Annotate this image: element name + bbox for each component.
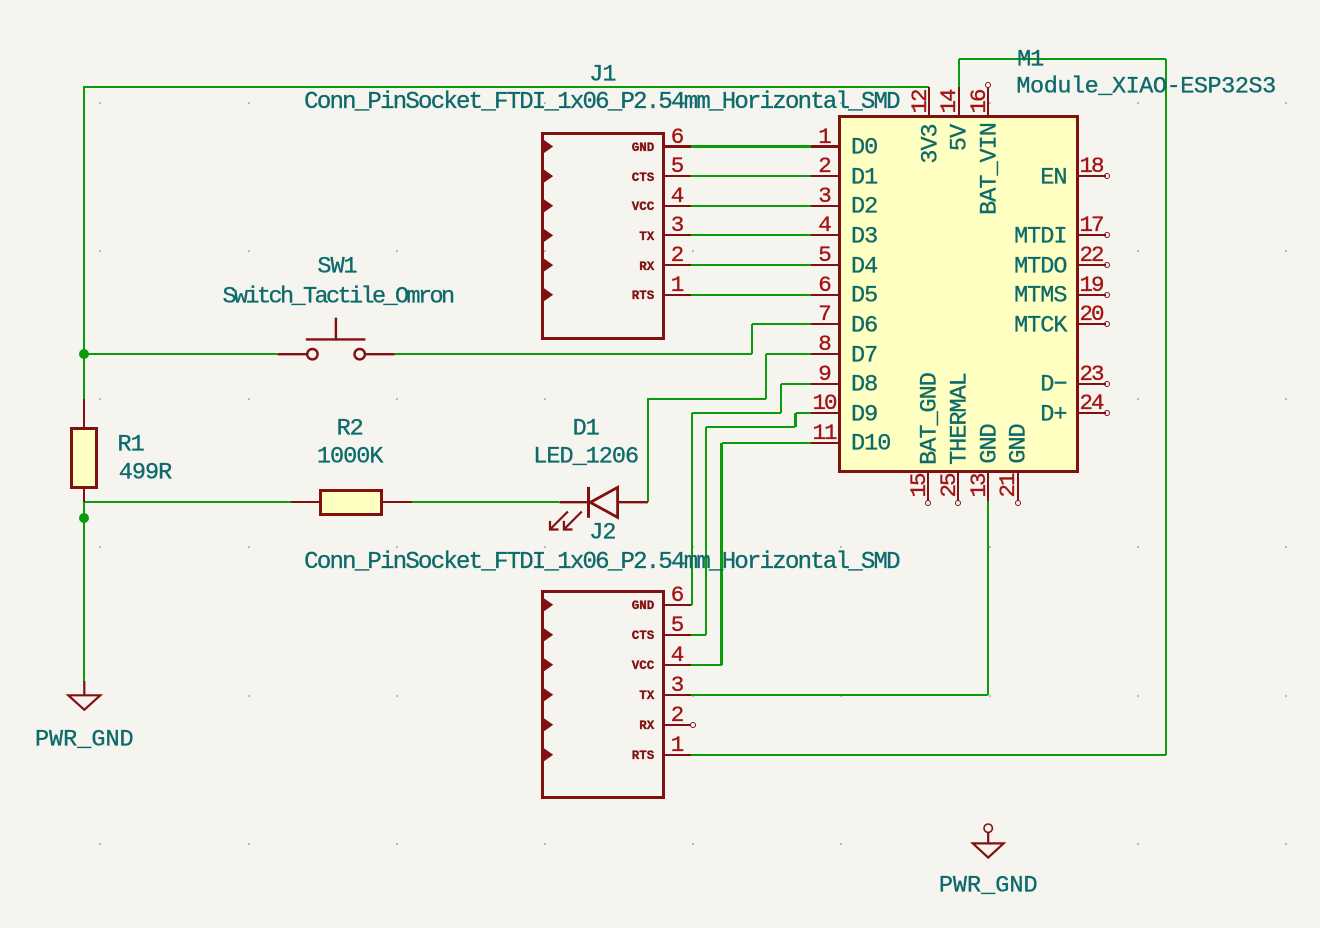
M1 pin number 1	[818, 125, 830, 148]
wire into pin 8 D7	[766, 353, 812, 355]
M1 pin name MTCK	[1014, 314, 1066, 338]
M1 pin name MTDO	[1014, 255, 1066, 279]
M1 pin 14 stub	[958, 87, 960, 117]
wire D9 down to J2 CTS	[705, 427, 707, 635]
M1 pin 10 stub	[811, 412, 839, 414]
M1 pin name D2	[851, 196, 877, 220]
M1 pin 19 unconnected circle	[1104, 292, 1110, 298]
M1 pin name GND	[1008, 424, 1032, 463]
M1 pin 25 stub	[957, 471, 959, 501]
M1 pin number 10	[812, 392, 835, 415]
M1 pin number 16	[967, 90, 990, 113]
connector J2 body	[541, 590, 665, 799]
J2 pin number 2	[671, 704, 683, 727]
M1 pin 11 stub	[811, 442, 839, 444]
J2 pin 1 stub	[663, 754, 691, 756]
J2 pin name VCC	[632, 660, 655, 673]
M1 pin 13 stub	[987, 471, 989, 501]
wire D7 net vertical jog	[765, 354, 767, 399]
wire R1 node to R2	[84, 501, 291, 503]
wire into pin 14 5V	[958, 59, 960, 87]
M1 pin 22 stub	[1077, 264, 1106, 266]
R1 top pin	[83, 399, 85, 429]
J2 pin name CTS	[632, 630, 655, 643]
wire J2 RTS horizontal	[691, 754, 1166, 756]
wire J1 pin 3 to M1 pin 4	[691, 234, 812, 236]
J1 pin 1 stub	[663, 294, 691, 296]
J2 pin 4 stub	[663, 664, 691, 666]
J1 pin name CTS	[632, 171, 655, 184]
resistor R1 body	[70, 427, 98, 489]
M1 pin name BAT_GND	[918, 373, 942, 465]
M1 pin 17 unconnected circle	[1104, 232, 1110, 238]
value 499R	[119, 461, 171, 485]
reference SW1	[317, 255, 356, 279]
M1 pin number 11	[812, 422, 835, 445]
M1 pin name D0	[851, 136, 877, 160]
M1 pin number 13	[967, 475, 990, 498]
M1 pin number 5	[818, 244, 830, 267]
value Switch_Tactile_Omron	[222, 286, 452, 310]
M1 pin 17 stub	[1077, 234, 1106, 236]
J2 pin number 6	[671, 584, 683, 607]
M1 pin 23 unconnected circle	[1104, 381, 1110, 387]
M1 pin number 19	[1079, 273, 1102, 296]
M1 pin name D1	[851, 166, 877, 190]
M1 pin name MTMS	[1014, 284, 1066, 308]
M1 pin 18 unconnected circle	[1104, 173, 1110, 179]
value J1 Conn_PinSocket_FTDI_1x06_P2.54mm_Horizontal_SMD	[304, 91, 899, 115]
wire SW1-D6 vertical jog	[751, 324, 753, 354]
M1 pin name MTDI	[1014, 225, 1066, 249]
M1 pin name BAT_VIN	[978, 123, 1002, 215]
M1 pin number 18	[1079, 155, 1102, 178]
wire D8 middle horizontal	[692, 412, 781, 414]
J2 pin name RTS	[632, 750, 655, 763]
J1 pin name RTS	[632, 290, 655, 303]
power label PWR_GND right	[939, 874, 1038, 898]
M1 pin name EN	[1040, 166, 1066, 190]
M1 pin name 5V	[948, 125, 972, 151]
M1 pin 12 stub	[928, 87, 930, 117]
M1 pin 8 stub	[811, 353, 839, 355]
M1 pin number 2	[818, 155, 830, 178]
reference D1	[573, 417, 599, 441]
M1 pin number 14	[938, 90, 961, 113]
M1 pin 4 stub	[811, 234, 839, 236]
wire J1 pin 4 to M1 pin 3	[691, 205, 812, 207]
M1 pin 5 stub	[811, 264, 839, 266]
wire stub J2 CTS junction	[691, 634, 707, 636]
wire M1 pin 13 vertical	[987, 501, 989, 695]
J2 pin 2 stub	[663, 724, 691, 726]
J2 pin 3 stub	[663, 694, 691, 696]
M1 pin name D+	[1040, 403, 1066, 427]
M1 pin number 20	[1079, 303, 1102, 326]
M1 pin name D5	[851, 284, 877, 308]
M1 pin number 23	[1079, 362, 1102, 385]
J1 pin number 6	[671, 125, 683, 148]
M1 pin 21 stub	[1017, 471, 1019, 501]
reference J1	[589, 63, 615, 87]
M1 pin number 22	[1079, 244, 1102, 267]
resistor R2 body	[319, 489, 383, 516]
M1 pin 16 unconnected circle	[985, 82, 991, 88]
wire D8 vertical jog	[780, 384, 782, 413]
wire pin 9 D8 horizontal	[781, 383, 812, 385]
J1 pin number 3	[671, 214, 683, 237]
M1 pin name D10	[851, 433, 890, 457]
wire D8 down to J2 GND	[691, 413, 693, 605]
reference R2	[337, 417, 363, 441]
J1 pin 2 stub	[663, 264, 691, 266]
J1 pin number 1	[671, 273, 683, 296]
M1 pin name D8	[851, 373, 877, 397]
M1 pin 16 stub	[987, 87, 989, 117]
wire RTS net top horizontal	[959, 58, 1166, 60]
wire R1 bottom to PWR_GND vertical	[83, 502, 85, 682]
M1 pin 2 stub	[811, 175, 839, 177]
junction below R1	[79, 513, 89, 523]
wire net 3V3 left vertical	[83, 86, 85, 399]
J1 pin number 5	[671, 155, 683, 178]
wire D10 down to J2 VCC	[720, 443, 722, 665]
M1 pin 18 stub	[1077, 175, 1106, 177]
M1 pin name D6	[851, 314, 877, 338]
M1 pin 15 unconnected circle	[925, 500, 931, 506]
M1 pin number 4	[818, 214, 830, 237]
M1 pin number 17	[1079, 214, 1102, 237]
J2 pin 5 stub	[663, 634, 691, 636]
J2 pin 2 RX unconnected circle	[690, 722, 696, 728]
M1 pin number 7	[818, 303, 830, 326]
M1 pin name D&#8722;	[1040, 373, 1066, 397]
M1 pin name D4	[851, 255, 877, 279]
wire J2 TX to M1 GND pin 13	[691, 694, 989, 696]
J1 pin 4 stub	[663, 205, 691, 207]
M1 pin number 3	[818, 185, 830, 208]
reference J2	[589, 521, 615, 545]
M1 pin 24 stub	[1077, 412, 1106, 414]
M1 pin 25 unconnected circle	[955, 500, 961, 506]
R2 left pin	[291, 501, 320, 503]
wire RTS net right vertical	[1165, 59, 1167, 755]
J1 pin name VCC	[632, 201, 655, 214]
wire J1 pin 5 to M1 pin 2	[691, 175, 812, 177]
value Module_XIAO-ESP32S3	[1016, 75, 1275, 99]
M1 pin 24 unconnected circle	[1104, 410, 1110, 416]
reference M1	[1017, 48, 1043, 72]
M1 pin name 3V3	[919, 124, 943, 163]
power label PWR_GND left	[35, 728, 134, 752]
M1 pin 20 stub	[1077, 323, 1106, 325]
M1 pin number 24	[1079, 392, 1102, 415]
wire SW1 left segment	[84, 353, 277, 355]
wire net 3V3 top horizontal	[84, 86, 929, 88]
M1 pin number 25	[937, 475, 960, 498]
wire D9 vertical jog	[794, 413, 796, 427]
M1 pin name GND	[978, 424, 1002, 463]
M1 pin 7 stub	[811, 323, 839, 325]
wire J1 pin 1 to M1 pin 6	[691, 294, 812, 296]
M1 pin name D9	[851, 403, 877, 427]
wire D1 cathode vertical riser	[647, 398, 649, 503]
reference R1	[117, 433, 143, 457]
M1 pin 15 stub	[927, 471, 929, 501]
J1 pin name TX	[639, 231, 654, 244]
wire pin 10 D9 horizontal	[796, 412, 812, 414]
M1 pin number 15	[908, 475, 931, 498]
M1 pin 20 unconnected circle	[1104, 321, 1110, 327]
value J2 Conn_PinSocket_FTDI_1x06_P2.54mm_Horizontal_SMD	[304, 551, 899, 575]
M1 pin name D3	[851, 225, 877, 249]
J2 pin name GND	[632, 600, 655, 613]
M1 pin 19 stub	[1077, 294, 1106, 296]
M1 pin number 8	[818, 333, 830, 356]
R1 bottom pin	[83, 489, 85, 502]
wire into pin 7 D6	[752, 323, 812, 325]
wire pin 11 D10 horizontal	[722, 442, 812, 444]
M1 pin 6 stub	[811, 294, 839, 296]
J1 pin 3 stub	[663, 234, 691, 236]
M1 pin number 21	[997, 475, 1020, 498]
module U/M1 body Module_XIAO-ESP32S3	[838, 115, 1079, 473]
wire D7 net middle horizontal	[648, 398, 766, 400]
J1 pin number 4	[671, 185, 683, 208]
J2 pin number 4	[671, 644, 683, 667]
M1 pin 1 stub	[811, 145, 839, 147]
connector J1 body	[541, 132, 665, 340]
J2 pin number 1	[671, 734, 683, 757]
M1 pin 23 stub	[1077, 383, 1106, 385]
M1 pin name D7	[851, 344, 877, 368]
J1 pin 6 stub	[663, 145, 691, 147]
R2 right pin	[382, 501, 412, 503]
J1 pin 5 stub	[663, 175, 691, 177]
M1 pin number 9	[818, 362, 830, 385]
M1 pin 22 unconnected circle	[1104, 262, 1110, 268]
M1 pin number 6	[818, 273, 830, 296]
M1 pin 9 stub	[811, 383, 839, 385]
J1 pin number 2	[671, 244, 683, 267]
junction at SW1 branch	[79, 349, 89, 359]
wire J1 pin 6 to M1 pin 1	[691, 145, 812, 147]
J2 pin name RX	[639, 720, 654, 733]
M1 pin number 12	[908, 90, 931, 113]
wire SW1 to D6 horizontal	[395, 353, 752, 355]
wire R2 to D1	[412, 501, 560, 503]
M1 pin 21 unconnected circle	[1015, 500, 1021, 506]
wire stub J2 VCC junction	[691, 664, 722, 666]
value LED_1206	[533, 445, 638, 469]
J2 pin number 5	[671, 614, 683, 637]
J1 pin name RX	[639, 260, 654, 273]
wire J1 pin 2 to M1 pin 5	[691, 264, 812, 266]
M1 pin name THERMAL	[948, 373, 972, 465]
wire stub J2 GND junction	[691, 604, 692, 606]
M1 pin 3 stub	[811, 205, 839, 207]
wire D9 middle horizontal	[706, 426, 795, 428]
J2 pin name TX	[639, 690, 654, 703]
J1 pin name GND	[632, 142, 655, 155]
J2 pin 6 stub	[663, 604, 691, 606]
J2 pin number 3	[671, 674, 683, 697]
value 1000K	[317, 445, 383, 469]
